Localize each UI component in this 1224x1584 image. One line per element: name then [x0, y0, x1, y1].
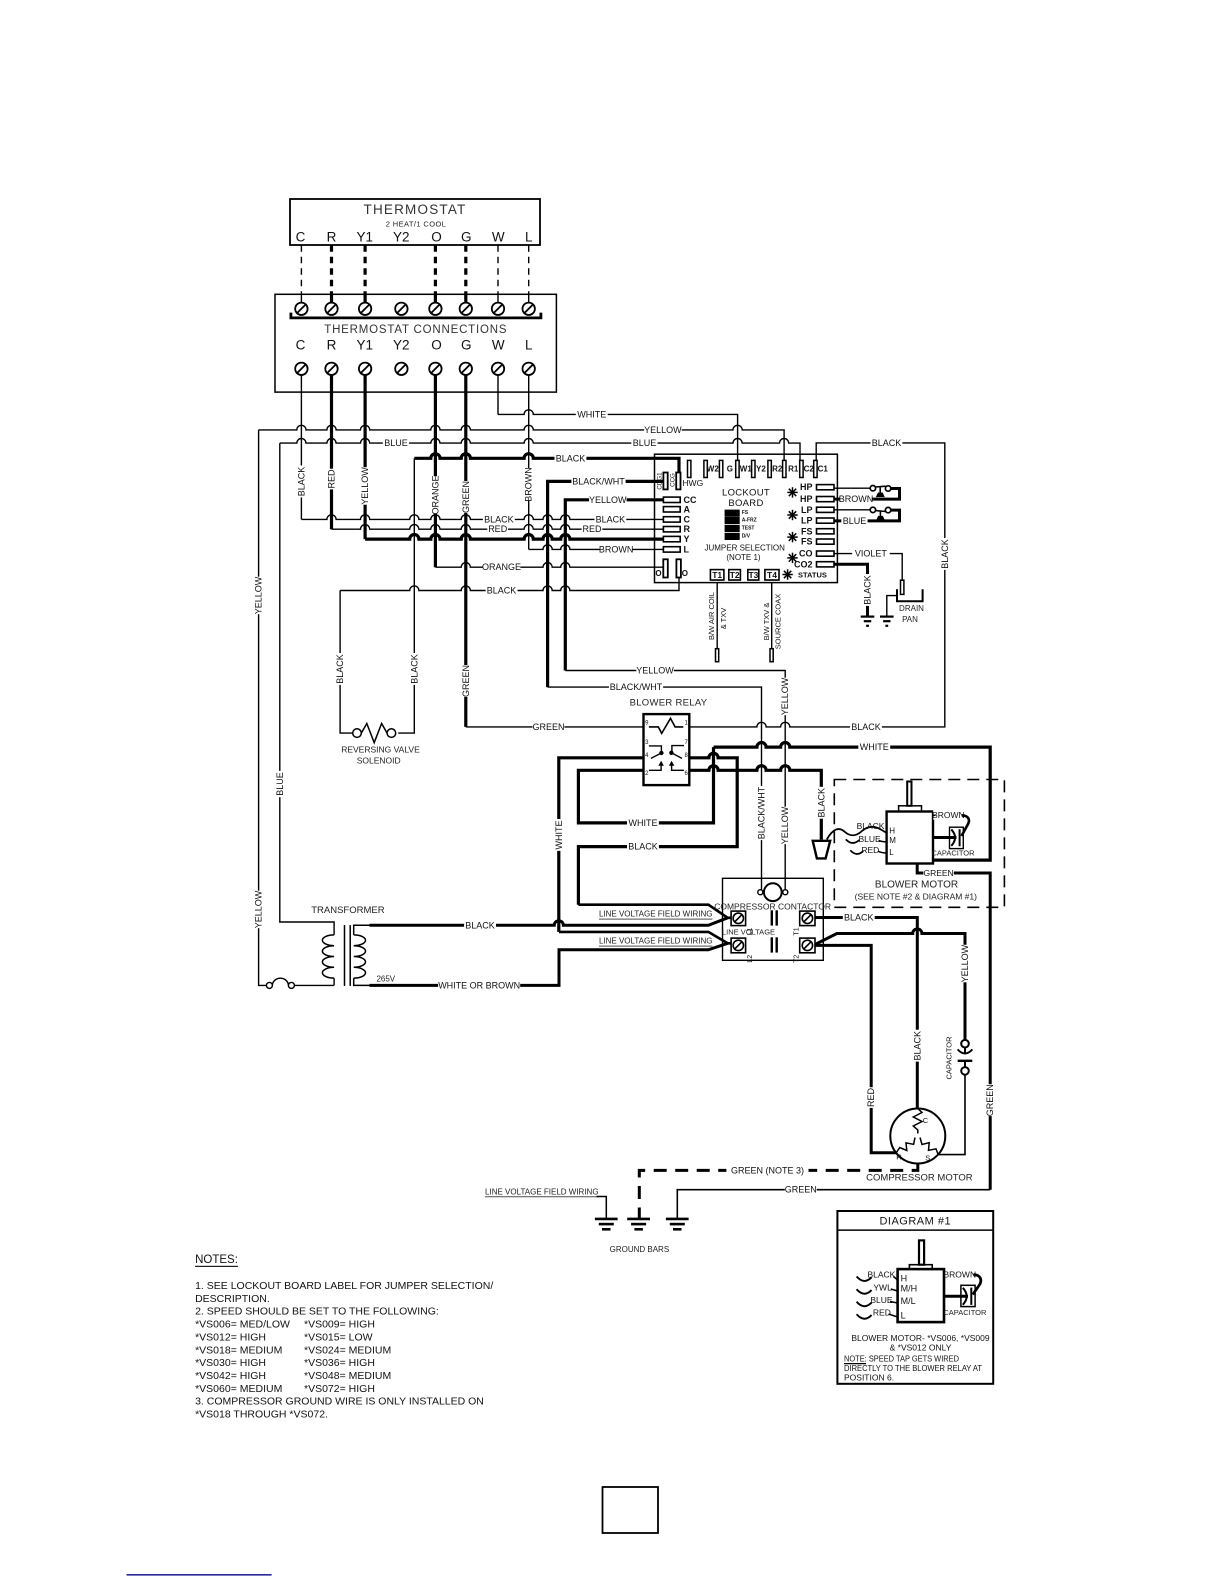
- compressor winding R: [896, 1138, 915, 1153]
- svg-text:LINE VOLTAGE FIELD WIRING: LINE VOLTAGE FIELD WIRING: [599, 910, 713, 919]
- label BLACK solenoid left: [335, 653, 345, 685]
- svg-text:GREEN: GREEN: [923, 868, 953, 878]
- wire WHITE relay 2 jumper: [578, 747, 713, 823]
- svg-text:CO: CO: [799, 549, 813, 559]
- svg-text:*VS018= MEDIUM: *VS018= MEDIUM: [195, 1344, 282, 1356]
- wire YELLOW row to contactor coil: [565, 671, 785, 890]
- label BROWN: [600, 544, 632, 554]
- footer rule: [127, 1574, 272, 1576]
- svg-text:M: M: [889, 836, 896, 845]
- LP pressure switch: [870, 507, 875, 512]
- svg-text:BOARD: BOARD: [728, 498, 763, 509]
- board right terminal pads: [817, 485, 835, 490]
- svg-text:C: C: [684, 514, 691, 524]
- label BLACK T1: [843, 913, 875, 923]
- contactor T1 screw: [800, 911, 815, 926]
- wire O column orange: [434, 375, 437, 567]
- wire WHITE relay 4 down to L2 flag: [559, 758, 644, 932]
- label T2 contactor: [794, 955, 801, 963]
- svg-text:FS: FS: [801, 537, 813, 547]
- svg-text:YELLOW: YELLOW: [360, 467, 370, 505]
- board status LEDs: [787, 491, 797, 493]
- svg-text:BLUE: BLUE: [858, 834, 881, 844]
- svg-text:CDG1: CDG1: [656, 472, 663, 490]
- svg-text:265V: 265V: [376, 975, 395, 984]
- svg-text:BLACK: BLACK: [296, 467, 306, 497]
- label BLACK C column: [296, 466, 306, 498]
- svg-text:BROWN: BROWN: [839, 494, 874, 504]
- wire YELLOW row to board R1: [259, 425, 785, 460]
- svg-text:T2: T2: [730, 570, 740, 580]
- svg-text:O: O: [682, 569, 688, 578]
- label GREEN bottom: [785, 1185, 817, 1195]
- svg-text:YELLOW: YELLOW: [636, 666, 674, 676]
- svg-text:CAPACITOR: CAPACITOR: [931, 848, 975, 857]
- svg-text:A: A: [684, 504, 691, 514]
- svg-text:YWL: YWL: [873, 1283, 892, 1293]
- wire HP2 BROWN row: [834, 498, 874, 501]
- svg-text:BLUE: BLUE: [275, 772, 285, 796]
- label ORANGE: [483, 562, 521, 572]
- wire LP1 to switch: [834, 509, 870, 511]
- svg-text:CAPACITOR: CAPACITOR: [943, 1308, 987, 1317]
- svg-text:BLOWER RELAY: BLOWER RELAY: [630, 698, 708, 709]
- wire GREEN from motor bottom: [917, 864, 990, 1190]
- svg-text:GREEN: GREEN: [985, 1084, 995, 1116]
- svg-text:WHITE: WHITE: [860, 742, 889, 752]
- svg-text:YELLOW: YELLOW: [254, 890, 264, 928]
- wire BLACK bottom row solenoid to board O2: [340, 578, 679, 591]
- board T1 terminal box: [710, 570, 724, 580]
- label BLACK/WHT: [571, 476, 625, 486]
- svg-text:BLACK: BLACK: [851, 722, 881, 732]
- svg-text:WHITE: WHITE: [629, 818, 658, 828]
- svg-text:*VS036= HIGH: *VS036= HIGH: [304, 1357, 375, 1369]
- svg-text:THERMOSTAT CONNECTIONS: THERMOSTAT CONNECTIONS: [324, 324, 507, 336]
- wire YELLOW thick from board CC: [565, 500, 663, 671]
- svg-text:BLACK: BLACK: [596, 514, 626, 524]
- revision box: [603, 1487, 659, 1533]
- svg-text:L: L: [684, 544, 690, 554]
- svg-text:R: R: [327, 338, 337, 353]
- svg-text:CO2: CO2: [794, 559, 813, 569]
- svg-text:L: L: [525, 338, 533, 353]
- contactor contacts L1-T1: [771, 910, 773, 925]
- label BROWN L column: [524, 467, 534, 502]
- svg-text:VIOLET: VIOLET: [855, 549, 888, 559]
- label BLUE pressure switch: [841, 516, 867, 526]
- wire HP1 to switch: [834, 487, 870, 489]
- ground at drain pan: [880, 615, 894, 617]
- svg-text:M/L: M/L: [901, 1296, 916, 1306]
- svg-text:M/H: M/H: [901, 1284, 918, 1294]
- wire VIOLET from CO to drain pan probe: [834, 554, 902, 581]
- label BLACK bottom row: [486, 586, 518, 596]
- svg-text:LP: LP: [801, 516, 813, 526]
- drain pan: [897, 589, 923, 601]
- relay arm 4 to dot: [651, 753, 662, 758]
- label BLACK mid left: [483, 514, 515, 524]
- board jumper block: [725, 510, 739, 516]
- wire GREEN NOTE3 dashed ground: [639, 1164, 918, 1219]
- svg-text:1. SEE LOCKOUT BOARD LABEL FOR: 1. SEE LOCKOUT BOARD LABEL FOR JUMPER SE…: [195, 1280, 493, 1292]
- svg-text:PAN: PAN: [902, 615, 918, 624]
- svg-text:*VS024= MEDIUM: *VS024= MEDIUM: [304, 1344, 391, 1356]
- contactor T2 screw: [800, 938, 815, 953]
- wire Y1 column yellow: [364, 375, 367, 539]
- wire W column white: [497, 375, 499, 414]
- svg-text:BLACK: BLACK: [484, 514, 514, 524]
- contactor contacts L2-T2: [771, 937, 773, 952]
- relay contact 3: [649, 746, 662, 752]
- svg-text:BLACK: BLACK: [556, 453, 586, 463]
- label YELLOW vertical contactor: [780, 806, 790, 844]
- label BLACK mid right: [594, 514, 626, 524]
- svg-text:T4: T4: [767, 570, 777, 580]
- svg-text:Y2: Y2: [393, 229, 410, 244]
- label BLUE right: [631, 438, 657, 448]
- wire G column green: [464, 375, 467, 727]
- svg-text:NOTES:: NOTES:: [195, 1254, 238, 1266]
- label CCG vertical: [669, 473, 676, 487]
- svg-text:C: C: [923, 1116, 929, 1125]
- thermostat connections box: [275, 294, 556, 392]
- svg-text:T3: T3: [748, 570, 758, 580]
- svg-text:R: R: [327, 229, 337, 244]
- svg-text:BLACK: BLACK: [816, 788, 826, 818]
- relay contact 7: [672, 746, 684, 752]
- label WHITE: [576, 409, 608, 419]
- wire L column brown: [528, 375, 530, 549]
- svg-text:DIAGRAM #1: DIAGRAM #1: [879, 1216, 951, 1228]
- svg-text:T1: T1: [794, 927, 801, 935]
- svg-text:FS: FS: [742, 510, 749, 516]
- label YELLOW vertical upper: [780, 677, 790, 715]
- svg-text:SOLENOID: SOLENOID: [357, 756, 401, 766]
- svg-text:4: 4: [645, 753, 649, 759]
- blower relay box: [644, 714, 690, 785]
- svg-text:POSITION 6.: POSITION 6.: [844, 1373, 894, 1383]
- wire C column black: [300, 375, 302, 519]
- svg-text:T2: T2: [794, 955, 801, 963]
- wire transformer bottom right lead: [354, 978, 370, 985]
- svg-text:*VS018 THROUGH *VS072.: *VS018 THROUGH *VS072.: [195, 1409, 328, 1421]
- contactor L2 screw: [731, 938, 746, 953]
- diagram 1 box: [837, 1211, 993, 1384]
- transformer primary coil left: [322, 935, 334, 978]
- diagram brown curve to capacitor: [973, 1275, 981, 1295]
- board T2 terminal box: [729, 570, 741, 580]
- svg-text:B/W TXV &: B/W TXV &: [762, 603, 771, 641]
- label BLUE vertical: [275, 771, 285, 797]
- label YELLOW vertical upper left: [254, 576, 264, 614]
- svg-text:BLOWER MOTOR- *VS006, *VS009: BLOWER MOTOR- *VS006, *VS009: [851, 1333, 990, 1343]
- label WHITE OR BROWN transformer feed: [438, 980, 520, 990]
- svg-text:(SEE NOTE #2 & DIAGRAM #1): (SEE NOTE #2 & DIAGRAM #1): [855, 891, 978, 901]
- wire line voltage to ground bar: [597, 1197, 607, 1219]
- wire BLACK relay 8 loop: [578, 753, 737, 905]
- compressor winding C: [913, 1109, 922, 1134]
- svg-text:Y1: Y1: [357, 338, 374, 353]
- svg-text:R: R: [896, 1153, 902, 1162]
- label WHITE vertical: [554, 819, 564, 851]
- label BLACK top right: [871, 438, 903, 448]
- label GREEN: [533, 722, 565, 732]
- blower motor box: [887, 812, 933, 864]
- svg-text:& *VS012 ONLY: & *VS012 ONLY: [890, 1343, 952, 1353]
- svg-text:D/V: D/V: [742, 534, 751, 540]
- svg-text:BLACK/WHT: BLACK/WHT: [757, 786, 767, 839]
- label BLACK vertical right side: [940, 538, 950, 570]
- label YELLOW vertical lower left: [254, 890, 264, 928]
- label GREEN (NOTE 3): [726, 1165, 808, 1175]
- svg-text:W: W: [492, 338, 505, 353]
- label BLACK/WHT lower: [609, 682, 663, 692]
- svg-text:GREEN: GREEN: [532, 722, 564, 732]
- svg-text:A-FRZ: A-FRZ: [742, 518, 757, 524]
- compressor run capacitor: [961, 1040, 969, 1048]
- svg-text:*VS030= HIGH: *VS030= HIGH: [195, 1357, 266, 1369]
- wire YELLOW into transformer via breaker: [259, 430, 267, 986]
- wire YELLOW thick row Y1 to board Y: [365, 534, 663, 539]
- svg-text:B/W AIR COIL: B/W AIR COIL: [707, 592, 716, 640]
- compressor motor circle: [890, 1109, 945, 1164]
- svg-text:H: H: [901, 1274, 908, 1284]
- ground bar right: [666, 1218, 689, 1221]
- board T3 terminal box: [748, 570, 759, 580]
- diagram lead connectors: [894, 1277, 898, 1281]
- wire ORANGE row O column to board O: [435, 563, 663, 568]
- svg-text:C1: C1: [818, 464, 829, 473]
- label GREEN G column lower: [461, 665, 471, 697]
- svg-text:W2: W2: [707, 464, 720, 473]
- svg-text:YELLOW: YELLOW: [644, 425, 682, 435]
- svg-text:8: 8: [685, 753, 689, 759]
- label BLACK relay 8: [627, 842, 659, 852]
- svg-text:BLACK: BLACK: [863, 575, 873, 605]
- label WHITE jumper: [627, 818, 659, 828]
- svg-text:LINE VOLTAGE FIELD WIRING: LINE VOLTAGE FIELD WIRING: [485, 1187, 599, 1196]
- svg-text:O: O: [431, 229, 442, 244]
- label WHITE motor: [858, 742, 890, 752]
- svg-text:Y2: Y2: [393, 338, 410, 353]
- svg-text:THERMOSTAT: THERMOSTAT: [364, 202, 467, 217]
- svg-text:*VS006= MED/LOW: *VS006= MED/LOW: [195, 1319, 290, 1331]
- connections bracket bus: [291, 313, 541, 318]
- HP pressure switch: [870, 486, 875, 491]
- dashed thermostat cable wires: [300, 245, 302, 294]
- svg-text:GREEN: GREEN: [785, 1185, 817, 1195]
- blower motor shaft: [907, 782, 911, 806]
- svg-text:S: S: [925, 1154, 930, 1163]
- svg-text:DESCRIPTION.: DESCRIPTION.: [195, 1293, 270, 1305]
- wire BLACK/WHT row to contactor coil: [548, 687, 762, 890]
- solenoid coil zigzag: [361, 724, 387, 743]
- svg-text:W: W: [492, 229, 505, 244]
- svg-text:JUMPER SELECTION: JUMPER SELECTION: [704, 544, 785, 553]
- svg-text:YELLOW: YELLOW: [960, 944, 970, 982]
- label BLACK splice vertical: [816, 787, 826, 819]
- label GREEN vertical right: [985, 1084, 995, 1116]
- ground bar middle: [627, 1218, 650, 1221]
- svg-text:*VS060= MEDIUM: *VS060= MEDIUM: [195, 1383, 282, 1395]
- svg-text:BROWN: BROWN: [932, 810, 965, 820]
- squiggle BLUE lead: [846, 839, 860, 843]
- label L2: [747, 955, 754, 963]
- svg-text:H: H: [889, 826, 895, 835]
- wire BLACK relay 6 to splice: [689, 766, 821, 840]
- wire transformer top right lead: [354, 925, 370, 935]
- transformer core: [344, 925, 346, 986]
- svg-text:C2: C2: [804, 464, 815, 473]
- board CDG1 terminal pad: [663, 473, 667, 490]
- svg-text:O: O: [655, 569, 661, 578]
- relay coil 9-1: [649, 718, 683, 733]
- svg-text:G: G: [461, 338, 472, 353]
- wire YELLOW from contactor T2 to capacitor: [815, 929, 965, 1040]
- svg-text:BLACK: BLACK: [628, 842, 658, 852]
- label BROWN pressure switch: [840, 494, 872, 504]
- T1 wire end pad: [716, 649, 719, 662]
- board CCG terminal pad: [676, 473, 680, 490]
- svg-text:G: G: [461, 229, 472, 244]
- label RED right: [582, 524, 603, 534]
- svg-text:CC: CC: [684, 495, 697, 505]
- svg-text:WHITE OR BROWN: WHITE OR BROWN: [438, 980, 520, 990]
- connections bottom screw terminals: [295, 363, 307, 375]
- label YELLOW Y1 column: [360, 467, 370, 505]
- diagram capacitor plates: [963, 1288, 967, 1305]
- svg-text:Y1: Y1: [357, 229, 374, 244]
- svg-text:*VS015= LOW: *VS015= LOW: [304, 1331, 373, 1343]
- svg-text:LINE VOLTAGE FIELD WIRING: LINE VOLTAGE FIELD WIRING: [599, 937, 713, 946]
- svg-text:C: C: [296, 338, 306, 353]
- wire R column red: [330, 375, 333, 529]
- svg-text:RED: RED: [861, 845, 879, 855]
- svg-text:HP: HP: [800, 482, 813, 492]
- thermostat box: [290, 199, 540, 245]
- label CDG1 vertical: [656, 472, 663, 490]
- lockout board outline: [655, 454, 838, 582]
- svg-text:COMPRESSOR CONTACTOR: COMPRESSOR CONTACTOR: [714, 902, 831, 912]
- svg-text:*VS042= HIGH: *VS042= HIGH: [195, 1370, 266, 1382]
- svg-text:L: L: [525, 229, 533, 244]
- svg-text:TRANSFORMER: TRANSFORMER: [311, 905, 385, 916]
- wire RED row R column to board R: [332, 525, 664, 530]
- wire BROWN curve to capacitor: [962, 815, 969, 836]
- contactor box: [723, 878, 824, 960]
- svg-text:HP: HP: [800, 494, 813, 504]
- wire BROWN row L column to board L: [529, 545, 664, 550]
- label RED R column: [327, 469, 337, 490]
- svg-text:GREEN: GREEN: [461, 665, 471, 697]
- svg-text:RED: RED: [873, 1308, 891, 1318]
- svg-text:BLUE: BLUE: [633, 438, 657, 448]
- svg-text:Y: Y: [684, 534, 690, 544]
- label GREEN at motor: [923, 868, 953, 878]
- label B/W TXV & SOURCE COAX: [762, 603, 771, 641]
- label RED left: [487, 524, 508, 534]
- label YELLOW: [644, 425, 682, 435]
- solenoid right contact: [387, 729, 396, 738]
- ground at CO2: [861, 615, 875, 617]
- svg-text:*VS012= HIGH: *VS012= HIGH: [195, 1331, 266, 1343]
- transformer secondary coil right: [354, 935, 366, 978]
- svg-text:DRAIN: DRAIN: [899, 604, 924, 613]
- label RED vertical: [866, 1087, 876, 1108]
- svg-text:ORANGE: ORANGE: [430, 475, 440, 514]
- wire HP switch loop BROWN: [874, 489, 900, 500]
- label BLACK row: [555, 453, 587, 463]
- board top terminal pads: [688, 460, 691, 477]
- svg-text:BLACK: BLACK: [487, 586, 517, 596]
- svg-text:RED: RED: [488, 524, 508, 534]
- blower capacitor box: [950, 827, 964, 848]
- svg-text:BLACK: BLACK: [465, 920, 495, 930]
- relay contact dot right: [670, 751, 673, 754]
- svg-text:YELLOW: YELLOW: [589, 495, 627, 505]
- label BLACK vertical compressor: [912, 1030, 922, 1062]
- wire solenoid right leg: [398, 458, 414, 733]
- svg-text:2: 2: [645, 771, 649, 777]
- wire WHITE thick to blower motor: [714, 743, 991, 861]
- svg-text:L: L: [889, 848, 894, 857]
- diagram motor box: [898, 1269, 944, 1322]
- svg-text:& TXV: & TXV: [719, 608, 728, 630]
- ground bar left: [595, 1218, 618, 1221]
- drain pan probe: [901, 580, 904, 594]
- svg-text:G: G: [727, 464, 733, 473]
- flag L2 line voltage field wiring: [559, 932, 731, 943]
- diagram lead squiggles: [857, 1277, 872, 1281]
- relay contact 6 with arrow: [672, 765, 684, 770]
- svg-text:*VS048= MEDIUM: *VS048= MEDIUM: [304, 1370, 391, 1382]
- wire solenoid left leg: [340, 591, 353, 734]
- svg-text:BLACK: BLACK: [872, 438, 902, 448]
- label VIOLET: [852, 549, 890, 559]
- svg-text:NOTE: SPEED TAP GETS WIRED: NOTE: SPEED TAP GETS WIRED: [844, 1354, 959, 1364]
- label B/W AIR COIL & TXV: [707, 592, 716, 640]
- svg-text:LINE VOLTAGE: LINE VOLTAGE: [722, 927, 775, 936]
- svg-text:BLUE: BLUE: [843, 516, 867, 526]
- svg-text:BLACK: BLACK: [409, 654, 419, 684]
- diagram motor shaft: [919, 1240, 924, 1264]
- wire GREEN row to relay coil 9: [466, 726, 644, 728]
- contactor L1 screw: [731, 911, 746, 926]
- svg-text:BLACK: BLACK: [912, 1031, 922, 1061]
- svg-text:BLACK: BLACK: [857, 821, 885, 831]
- board left terminal pads CC A C R Y L: [663, 497, 680, 502]
- wire BLACK/WHT thick to board CCG left: [548, 481, 664, 687]
- wire drain pan to ground: [887, 596, 897, 617]
- svg-text:2 HEAT/1 COOL: 2 HEAT/1 COOL: [386, 220, 447, 229]
- svg-text:BLACK: BLACK: [940, 539, 950, 569]
- label BROWN blower: [933, 810, 963, 820]
- svg-text:R: R: [684, 524, 691, 534]
- svg-text:REVERSING VALVE: REVERSING VALVE: [341, 745, 420, 755]
- breaker contact circles: [266, 982, 272, 988]
- connections top screw stubs: [300, 294, 302, 302]
- compressor winding S: [920, 1138, 938, 1155]
- svg-text:9: 9: [645, 721, 649, 727]
- connections top screw terminals: [295, 303, 307, 315]
- wire BLACK thick row to board CCG right: [414, 454, 679, 473]
- wire T4 stub: [771, 583, 773, 649]
- svg-text:GREEN (NOTE 3): GREEN (NOTE 3): [731, 1165, 804, 1175]
- diagram capacitor box: [961, 1285, 975, 1306]
- blower capacitor plates: [951, 829, 955, 845]
- svg-text:YELLOW: YELLOW: [780, 806, 790, 844]
